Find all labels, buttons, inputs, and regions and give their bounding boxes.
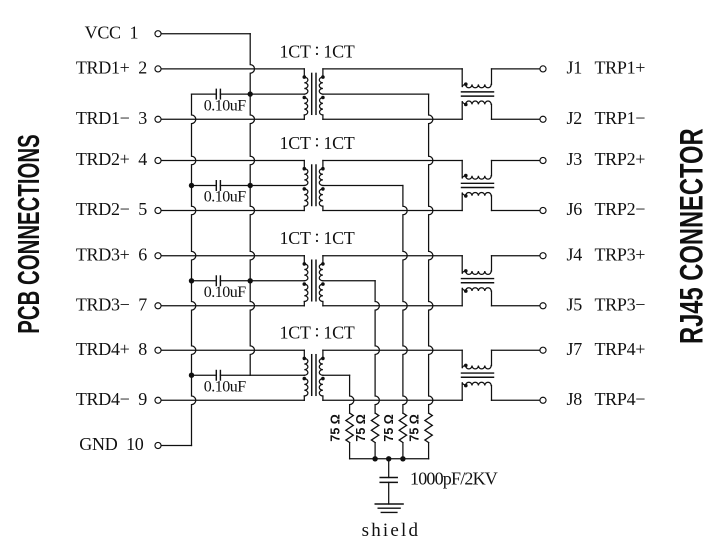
pin TRD3+ 6 terminal — [76, 244, 161, 264]
wire T3 secondary top to choke L3 — [323, 255, 462, 257]
common-mode choke L4 — [462, 350, 494, 400]
svg-text:J6 TRP2−: J6 TRP2− — [567, 199, 646, 219]
wire T2 secondary top to choke L2 — [323, 160, 462, 162]
svg-text:J3 TRP2+: J3 TRP2+ — [567, 149, 646, 169]
wire GND bus vertical — [192, 94, 196, 445]
capacitor C5 1000pF/2KV — [380, 459, 498, 504]
svg-text:1000pF/2KV: 1000pF/2KV — [410, 469, 498, 489]
pin GND 10 terminal — [79, 434, 161, 454]
svg-text:75 Ω: 75 Ω — [329, 414, 343, 441]
svg-text:75 Ω: 75 Ω — [354, 414, 368, 441]
wire centre-tap row 2 left segment — [192, 185, 217, 187]
wire centre-tap row 1 to T1 left centre tap — [220, 93, 304, 95]
transformer T1 1CT:1CT — [303, 69, 325, 119]
junction VCC bus / T1 centre tap — [248, 91, 253, 96]
wire centre-tap row 3 to T3 left centre tap — [220, 280, 304, 282]
wire T3 centre tap vertical to R2 — [375, 281, 379, 413]
resistor R4 75 ohm — [408, 413, 433, 459]
wire choke L2 top to J pin — [492, 160, 540, 162]
svg-text:TRD3+ 6: TRD3+ 6 — [76, 244, 147, 264]
wire TRD3- to T3 — [162, 305, 305, 307]
label T4 ratio 1CT:1CT — [280, 320, 355, 342]
svg-text:J5 TRP3−: J5 TRP3− — [567, 294, 646, 314]
common-mode choke L3 — [462, 256, 494, 306]
wire TRD1- to T1 — [162, 118, 305, 120]
transformer T3 1CT:1CT — [303, 256, 325, 306]
svg-text:J7 TRP4+: J7 TRP4+ — [567, 339, 646, 359]
svg-text:1CT : 1CT: 1CT : 1CT — [280, 39, 355, 61]
pin TRD2- 5 terminal — [76, 199, 161, 219]
pin TRD1- 3 terminal — [76, 108, 161, 128]
junction VCC bus / T3 centre tap — [248, 278, 253, 283]
wire T4 secondary bottom to choke L4 — [323, 399, 462, 401]
resistor R1 75 ohm — [329, 413, 354, 459]
wire T2 secondary centre tap stub — [323, 185, 403, 187]
svg-text:75 Ω: 75 Ω — [408, 414, 422, 441]
capacitor C3 0.10uF — [204, 276, 247, 301]
pin J1 TRP1+ terminal — [540, 58, 645, 78]
svg-text:J4 TRP3+: J4 TRP3+ — [567, 244, 646, 264]
pin TRD2+ 4 terminal — [76, 149, 161, 169]
wire T4 secondary centre tap stub — [323, 374, 350, 376]
junction VCC bus / T2 centre tap — [248, 183, 253, 188]
junction bus / shield cap — [386, 456, 391, 461]
wire termination bus — [350, 458, 429, 460]
junction GND bus / C3 — [189, 278, 194, 283]
svg-text:J2 TRP1−: J2 TRP1− — [567, 108, 646, 128]
wire choke L1 top to J pin — [492, 68, 540, 70]
svg-text:1CT : 1CT: 1CT : 1CT — [280, 226, 355, 248]
wire T4 secondary top to choke L4 — [323, 349, 462, 351]
wire T1 centre tap vertical to R4 — [429, 94, 433, 413]
svg-text:1CT : 1CT: 1CT : 1CT — [280, 131, 355, 153]
svg-text:0.10uF: 0.10uF — [204, 284, 247, 301]
wire T1 secondary top to choke L1 — [323, 68, 462, 70]
wire TRD2- to T2 — [162, 210, 305, 212]
pin J7 TRP4+ terminal — [540, 339, 645, 359]
earth ground shield — [362, 504, 421, 541]
wire choke L4 top to J pin — [492, 349, 540, 351]
wire T1 secondary bottom to choke L1 — [323, 118, 462, 120]
wire T2 secondary bottom to choke L2 — [323, 210, 462, 212]
pin TRD4+ 8 terminal — [76, 339, 161, 359]
junction GND bus / C4 — [189, 373, 194, 378]
wire choke L3 bottom to J pin — [492, 305, 540, 307]
pin J2 TRP1- terminal — [540, 108, 645, 128]
wire T2 centre tap vertical to R3 — [403, 186, 407, 414]
svg-text:TRD4− 9: TRD4− 9 — [76, 389, 147, 409]
label T2 ratio 1CT:1CT — [280, 131, 355, 153]
pin J8 TRP4- terminal — [540, 389, 645, 409]
capacitor C1 0.10uF — [204, 89, 247, 114]
wire TRD1+ to T1 — [162, 68, 305, 70]
wire VCC pin to VCC bus — [162, 33, 251, 35]
svg-text:TRD1+ 2: TRD1+ 2 — [76, 58, 147, 78]
wire centre-tap row 4 to T4 left centre tap — [220, 374, 304, 376]
pin VCC 1 terminal — [85, 22, 161, 42]
svg-text:J8 TRP4−: J8 TRP4− — [567, 389, 646, 409]
resistor R2 75 ohm — [354, 413, 379, 459]
pin J6 TRP2- terminal — [540, 199, 645, 219]
pin TRD4- 9 terminal — [76, 389, 161, 409]
pin J3 TRP2+ terminal — [540, 149, 645, 169]
pin TRD1+ 2 terminal — [76, 58, 161, 78]
svg-text:0.10uF: 0.10uF — [204, 378, 247, 395]
svg-text:TRD1− 3: TRD1− 3 — [76, 108, 147, 128]
wire VCC bus vertical — [250, 34, 254, 376]
wire TRD3+ to T3 — [162, 255, 305, 257]
wire choke L2 bottom to J pin — [492, 210, 540, 212]
common-mode choke L2 — [462, 161, 494, 211]
junction bus / R2 — [372, 456, 377, 461]
wire TRD4- to T4 — [162, 399, 305, 401]
wire T3 secondary bottom to choke L3 — [323, 305, 462, 307]
junction GND bus / C2 — [189, 183, 194, 188]
wire centre-tap row 2 to T2 left centre tap — [220, 185, 304, 187]
title RJ45 CONNECTOR — [674, 128, 709, 344]
capacitor C2 0.10uF — [204, 181, 247, 206]
pin J5 TRP3- terminal — [540, 294, 645, 314]
wire choke L4 bottom to J pin — [492, 399, 540, 401]
wire TRD4+ to T4 — [162, 349, 305, 351]
svg-text:GND 10: GND 10 — [79, 434, 143, 454]
svg-text:75 Ω: 75 Ω — [382, 414, 396, 441]
wire choke L1 bottom to J pin — [492, 118, 540, 120]
svg-text:TRD2+ 4: TRD2+ 4 — [76, 149, 147, 169]
svg-text:RJ45 CONNECTOR: RJ45 CONNECTOR — [674, 128, 709, 344]
svg-text:TRD2− 5: TRD2− 5 — [76, 199, 147, 219]
wire T3 secondary centre tap stub — [323, 280, 375, 282]
common-mode choke L1 — [462, 69, 494, 119]
junction bus / R3 — [400, 456, 405, 461]
wire centre-tap row 4 left segment — [192, 374, 217, 376]
svg-text:PCB CONNECTIONS: PCB CONNECTIONS — [11, 134, 46, 333]
svg-text:0.10uF: 0.10uF — [204, 97, 247, 114]
svg-text:0.10uF: 0.10uF — [204, 189, 247, 206]
svg-text:1CT : 1CT: 1CT : 1CT — [280, 320, 355, 342]
svg-text:shield: shield — [362, 520, 421, 541]
title PCB CONNECTIONS — [11, 134, 46, 333]
svg-text:TRD4+ 8: TRD4+ 8 — [76, 339, 147, 359]
wire TRD2+ to T2 — [162, 160, 305, 162]
svg-text:TRD3− 7: TRD3− 7 — [76, 294, 147, 314]
label T1 ratio 1CT:1CT — [280, 39, 355, 61]
pin TRD3- 7 terminal — [76, 294, 161, 314]
wire GND pin to GND bus — [162, 445, 192, 447]
resistor R3 75 ohm — [382, 413, 407, 459]
wire centre-tap row 3 left segment — [192, 280, 217, 282]
transformer T2 1CT:1CT — [303, 161, 325, 211]
svg-text:VCC 1: VCC 1 — [85, 22, 139, 42]
wire T4 centre tap vertical to R1 — [350, 375, 354, 413]
wire T1 secondary centre tap stub — [323, 93, 429, 95]
wire choke L3 top to J pin — [492, 255, 540, 257]
label T3 ratio 1CT:1CT — [280, 226, 355, 248]
pin J4 TRP3+ terminal — [540, 244, 645, 264]
svg-text:J1 TRP1+: J1 TRP1+ — [567, 58, 646, 78]
transformer T4 1CT:1CT — [303, 350, 325, 400]
wire centre-tap row 1 left segment — [192, 93, 217, 95]
capacitor C4 0.10uF — [204, 371, 247, 396]
